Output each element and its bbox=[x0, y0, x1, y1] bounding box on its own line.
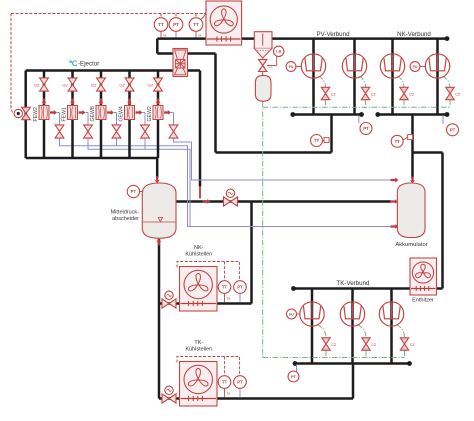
svg-text:TT: TT bbox=[222, 285, 228, 290]
svg-text:FEW1: FEW1 bbox=[62, 107, 68, 122]
svg-text:GEW2: GEW2 bbox=[147, 106, 153, 121]
svg-text:LB: LB bbox=[276, 50, 281, 54]
svg-text:CZ: CZ bbox=[331, 343, 337, 347]
svg-text:Kühlstellen: Kühlstellen bbox=[185, 347, 212, 353]
svg-text:TT: TT bbox=[314, 138, 320, 143]
svg-text:CZ: CZ bbox=[371, 343, 377, 347]
svg-text:GEW4: GEW4 bbox=[119, 106, 125, 121]
svg-text:CZ: CZ bbox=[455, 92, 461, 96]
svg-text:NK-Verbund: NK-Verbund bbox=[397, 31, 431, 38]
svg-text:CZ: CZ bbox=[409, 92, 415, 96]
svg-text:GEW8: GEW8 bbox=[90, 106, 96, 121]
svg-text:FU: FU bbox=[413, 65, 418, 69]
svg-text:Mitteldruck-: Mitteldruck- bbox=[111, 210, 140, 216]
svg-text:Enthitzer: Enthitzer bbox=[412, 298, 434, 304]
svg-text:CZ: CZ bbox=[331, 92, 337, 96]
svg-text:GZ: GZ bbox=[34, 82, 40, 87]
svg-text:TT: TT bbox=[158, 22, 164, 27]
svg-text:Kühlstellen: Kühlstellen bbox=[185, 252, 212, 258]
svg-text:PT: PT bbox=[291, 374, 297, 379]
svg-text:CZ: CZ bbox=[268, 64, 274, 68]
svg-text:TT: TT bbox=[193, 22, 199, 27]
svg-text:PT: PT bbox=[237, 380, 243, 385]
svg-text:ta: ta bbox=[164, 34, 167, 38]
svg-text:GZ: GZ bbox=[91, 82, 97, 87]
svg-text:PT: PT bbox=[450, 127, 456, 132]
svg-text:abscheider: abscheider bbox=[112, 216, 139, 222]
svg-text:GZ: GZ bbox=[62, 82, 68, 87]
svg-text:ta: ta bbox=[199, 34, 202, 38]
svg-text:FEW2: FEW2 bbox=[33, 107, 39, 122]
svg-text:PT: PT bbox=[173, 22, 179, 27]
svg-text:FU: FU bbox=[289, 65, 294, 69]
svg-text:PT: PT bbox=[237, 285, 243, 290]
svg-text:TK-Verbund: TK-Verbund bbox=[336, 280, 370, 287]
svg-text:GZ: GZ bbox=[119, 82, 125, 87]
svg-text:Akkumulator: Akkumulator bbox=[395, 242, 427, 248]
svg-text:FU: FU bbox=[289, 312, 294, 316]
svg-text:ta: ta bbox=[227, 392, 230, 396]
svg-text:NK-: NK- bbox=[194, 245, 204, 251]
svg-text:PT: PT bbox=[131, 189, 137, 194]
svg-text:-Ejector: -Ejector bbox=[78, 61, 99, 68]
svg-text:GZ: GZ bbox=[148, 82, 154, 87]
svg-text:TT: TT bbox=[395, 139, 401, 144]
svg-text:ta: ta bbox=[227, 297, 230, 301]
svg-text:CZ: CZ bbox=[371, 92, 377, 96]
svg-text:PT: PT bbox=[363, 126, 369, 131]
svg-text:CZ: CZ bbox=[410, 343, 416, 347]
svg-text:℃: ℃ bbox=[69, 59, 78, 68]
svg-text:PV-Verbund: PV-Verbund bbox=[316, 31, 350, 38]
svg-text:TT: TT bbox=[222, 380, 228, 385]
svg-text:TK-: TK- bbox=[194, 340, 203, 346]
